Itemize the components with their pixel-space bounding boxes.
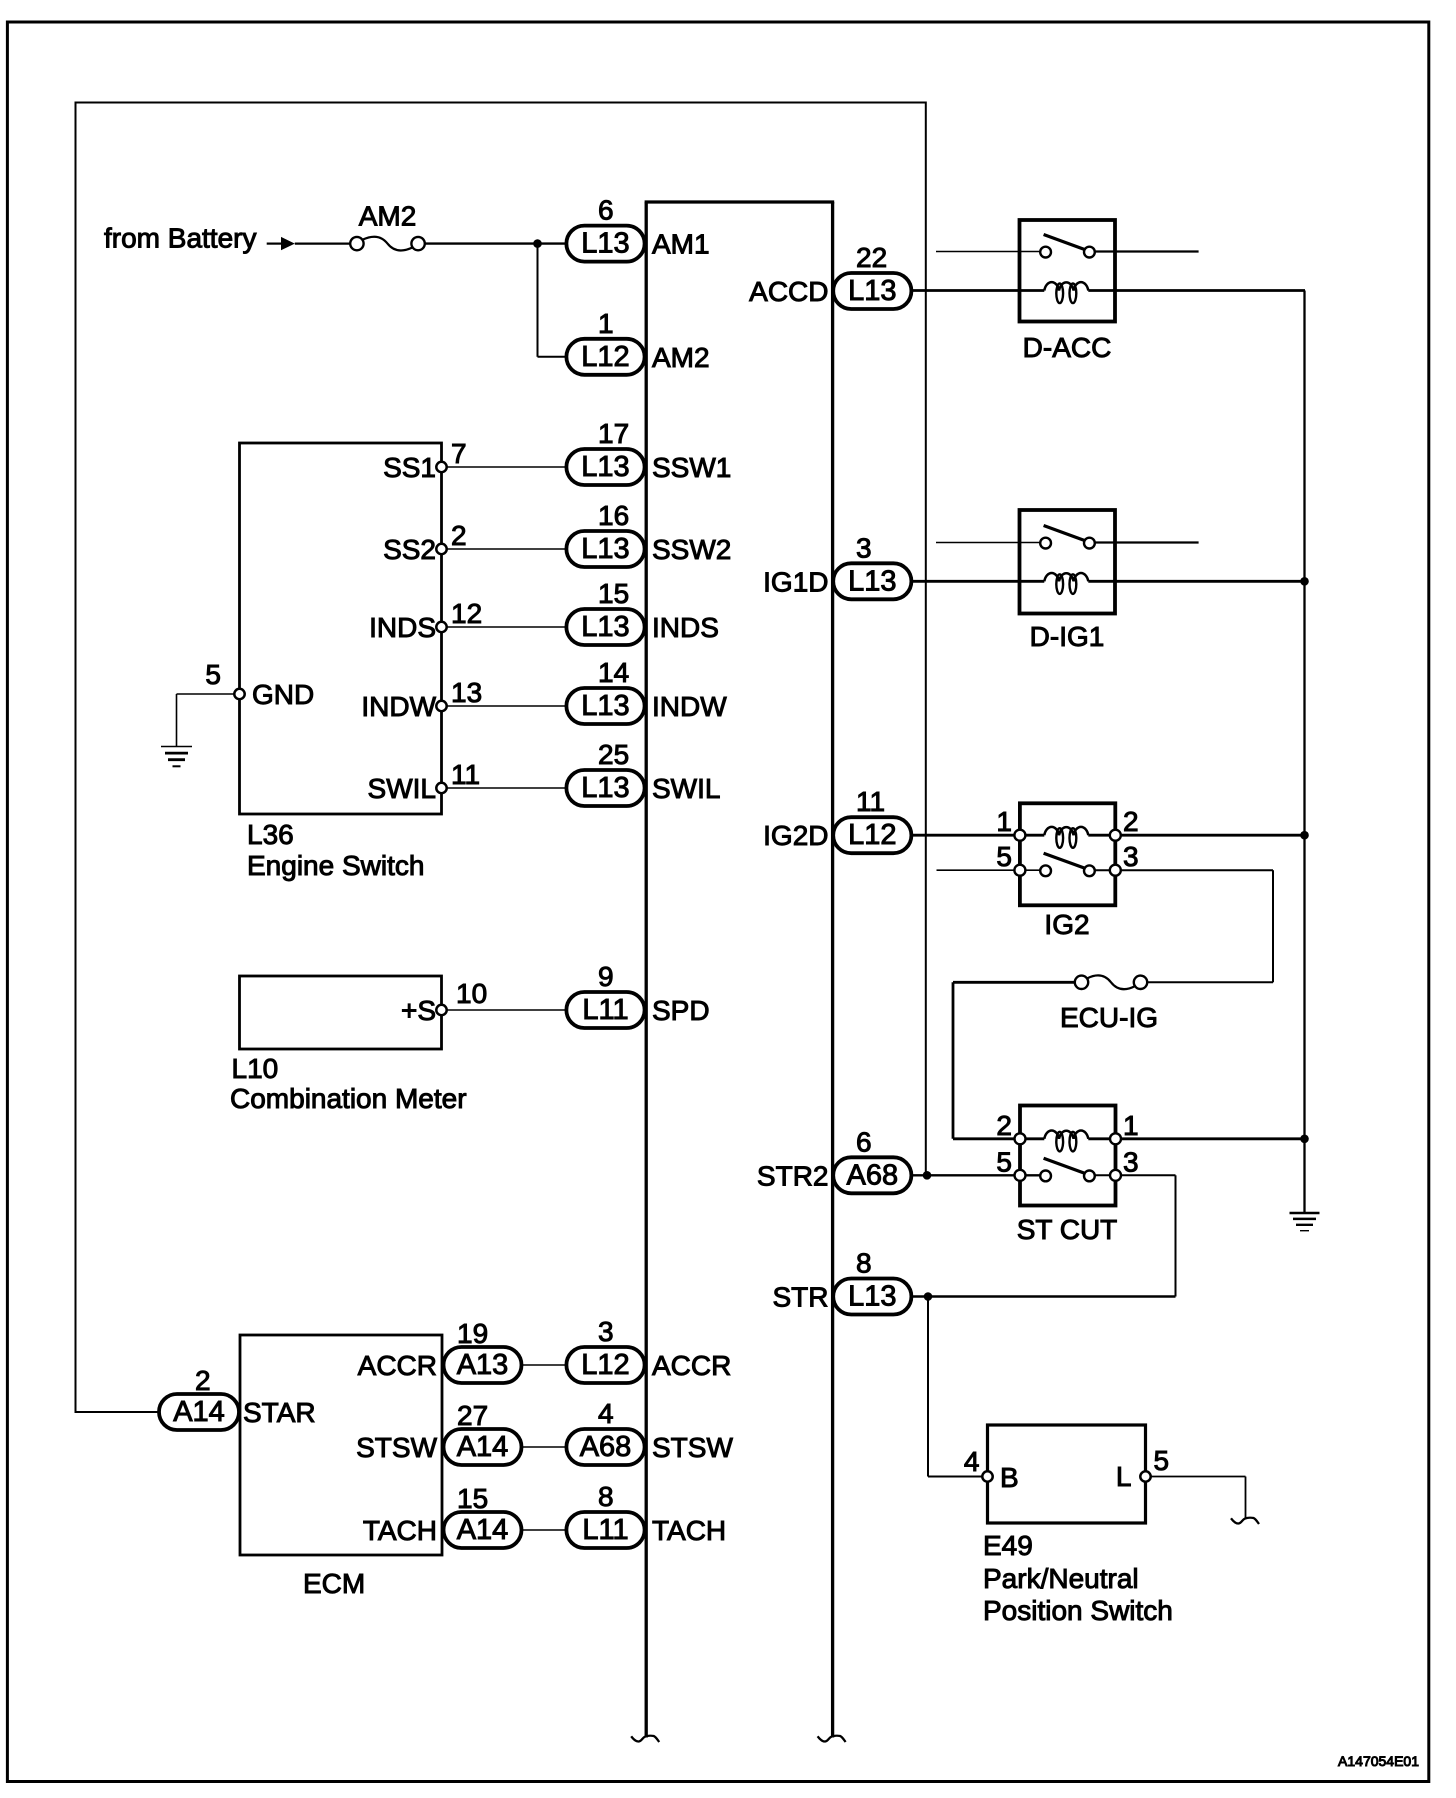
- connector L13 pin 15 (INDS): [566, 578, 719, 645]
- svg-text:13: 13: [451, 677, 482, 708]
- relay IG2 coil: [1044, 827, 1088, 848]
- connector L12 pin 11 (IG2D): [763, 786, 911, 853]
- svg-text:5: 5: [1154, 1445, 1170, 1476]
- connector L11 pin 9 (SPD): [566, 961, 709, 1028]
- wire battery feed with arrow: [267, 237, 351, 250]
- svg-text:14: 14: [598, 657, 629, 688]
- relay ST CUT pin 5: [996, 1146, 1025, 1181]
- svg-text:L13: L13: [581, 772, 629, 804]
- svg-text:STSW: STSW: [652, 1432, 733, 1463]
- relay ST CUT switch: [1040, 1158, 1095, 1181]
- svg-text:INDS: INDS: [369, 612, 436, 643]
- svg-text:11: 11: [856, 786, 885, 817]
- svg-text:9: 9: [598, 961, 614, 992]
- svg-text:INDW: INDW: [652, 691, 727, 722]
- svg-text:1: 1: [598, 308, 614, 339]
- svg-text:Position Switch: Position Switch: [983, 1595, 1173, 1626]
- connector L13 pin 3 (IG1D): [763, 532, 911, 599]
- svg-text:L13: L13: [581, 451, 629, 483]
- wire IG2 pin 3 down to fuse ECU-IG: [1147, 870, 1273, 982]
- wire E49 pin L away: [1146, 1477, 1246, 1520]
- node junction STR branch down: [924, 1292, 933, 1301]
- ground symbol at L36 GND: [161, 747, 192, 767]
- svg-text:from Battery: from Battery: [104, 223, 256, 254]
- svg-text:L13: L13: [581, 533, 629, 565]
- relay ST CUT pin 2: [996, 1110, 1025, 1145]
- junction bus block rails: [645, 202, 835, 1738]
- connector L12 pin 1 (AM2): [566, 308, 709, 375]
- svg-text:1: 1: [996, 806, 1012, 837]
- svg-text:5: 5: [996, 841, 1012, 872]
- svg-text:+S: +S: [401, 995, 436, 1026]
- svg-text:ECM: ECM: [303, 1568, 365, 1599]
- block L36 Engine Switch: [240, 443, 442, 881]
- svg-text:22: 22: [856, 242, 887, 273]
- svg-text:L13: L13: [848, 565, 896, 597]
- relay IG2 pin 5: [996, 841, 1025, 876]
- svg-text:6: 6: [856, 1126, 872, 1157]
- wire SS1 to bus connector: [442, 466, 567, 468]
- pin 5 GND of L36: [205, 659, 314, 710]
- wire relay IG2 switch row: [937, 869, 1274, 871]
- svg-text:ACCD: ACCD: [749, 276, 828, 307]
- pin 2 SS2 of L36: [383, 520, 467, 565]
- svg-text:IG2: IG2: [1044, 909, 1089, 940]
- wire ST CUT pin 3 down to STR row: [1095, 1175, 1176, 1296]
- svg-text:5: 5: [996, 1146, 1012, 1177]
- wire break squiggle below E49 pin L wire: [1231, 1518, 1259, 1524]
- wire STSW link to bus connector: [522, 1446, 567, 1448]
- svg-text:Engine Switch: Engine Switch: [247, 850, 424, 881]
- pin 5 L of E49: [1116, 1445, 1169, 1492]
- svg-text:8: 8: [598, 1481, 614, 1512]
- svg-text:AM1: AM1: [652, 229, 710, 260]
- wire STR down to E49 pin B: [928, 1297, 988, 1477]
- svg-text:3: 3: [1123, 1146, 1139, 1177]
- block E49 Park/Neutral Position Switch: [983, 1425, 1173, 1626]
- net label from Battery: [104, 223, 256, 254]
- wire ACCR link to bus connector: [522, 1364, 567, 1366]
- node junction IG2D coil to right rail: [1300, 831, 1309, 840]
- svg-text:L12: L12: [581, 341, 629, 373]
- svg-text:ECU-IG: ECU-IG: [1060, 1002, 1158, 1033]
- relay IG2 box: [1020, 803, 1115, 940]
- svg-text:19: 19: [457, 1318, 488, 1349]
- svg-text:2: 2: [996, 1110, 1012, 1141]
- connector A14 pin 2 (STAR): [159, 1365, 239, 1430]
- svg-text:B: B: [1000, 1462, 1019, 1493]
- svg-text:A147054E01: A147054E01: [1338, 1753, 1419, 1769]
- svg-text:A13: A13: [457, 1349, 509, 1381]
- relay IG2 pin 1: [996, 806, 1025, 841]
- wire relay D-IG1 switch stubs: [936, 542, 1199, 544]
- svg-text:IG1D: IG1D: [763, 566, 828, 597]
- relay ST CUT pin 1: [1110, 1110, 1139, 1145]
- svg-text:1: 1: [1123, 1110, 1139, 1141]
- svg-text:INDS: INDS: [652, 612, 719, 643]
- wire SS2 to bus connector: [442, 548, 567, 550]
- svg-text:Park/Neutral: Park/Neutral: [983, 1563, 1139, 1594]
- relay IG2 switch: [1040, 853, 1095, 876]
- wire IG1D to relay D-IG1 coil and right rail: [911, 580, 1304, 583]
- svg-text:A14: A14: [173, 1396, 225, 1428]
- relay D-IG1 box: [1020, 510, 1116, 652]
- pin 10 +S of L10: [401, 978, 487, 1026]
- relay IG2 pin 3: [1110, 841, 1139, 876]
- relay ST CUT box: [1017, 1106, 1118, 1246]
- svg-text:L13: L13: [581, 690, 629, 722]
- node junction STR2 with STAR loop: [923, 1171, 932, 1180]
- svg-text:4: 4: [598, 1398, 614, 1429]
- wire fuse AM2 to connector AM1: [425, 242, 567, 244]
- svg-text:D-IG1: D-IG1: [1030, 621, 1105, 652]
- wire INDW to bus connector: [442, 705, 567, 707]
- svg-text:IG2D: IG2D: [763, 820, 828, 851]
- svg-text:A68: A68: [846, 1159, 898, 1191]
- connector A13 pin 19 (ACCR out of ECM): [444, 1318, 522, 1383]
- connector A68 pin 6 (STR2): [757, 1126, 911, 1193]
- svg-text:ST CUT: ST CUT: [1017, 1214, 1118, 1245]
- wire STR row: [911, 1295, 1175, 1297]
- svg-text:3: 3: [856, 532, 872, 563]
- svg-text:L12: L12: [581, 1349, 629, 1381]
- connector A14 pin 27 (STSW out of ECM): [444, 1400, 522, 1465]
- relay D-IG1 switch: [1040, 526, 1095, 549]
- connector L13 pin 16 (SSW2): [566, 500, 731, 567]
- svg-text:L12: L12: [848, 819, 896, 851]
- wire INDS to bus connector: [442, 626, 567, 628]
- svg-text:STR2: STR2: [757, 1160, 829, 1191]
- relay D-IG1 coil: [1044, 573, 1088, 594]
- svg-text:E49: E49: [983, 1530, 1033, 1561]
- relay D-ACC switch: [1040, 235, 1095, 258]
- pin labels ACCR STSW TACH of ECM: [356, 1350, 437, 1546]
- block L10 Combination Meter: [230, 976, 467, 1114]
- svg-text:15: 15: [457, 1483, 488, 1514]
- svg-text:L10: L10: [232, 1053, 279, 1084]
- wire IG2D to relay IG2 coil and right rail: [911, 834, 1304, 837]
- svg-text:A14: A14: [457, 1514, 509, 1546]
- svg-text:3: 3: [598, 1316, 614, 1347]
- svg-text:15: 15: [598, 578, 629, 609]
- wire relay D-ACC switch stubs: [936, 251, 1199, 253]
- svg-text:SWIL: SWIL: [368, 773, 436, 804]
- svg-text:L13: L13: [848, 1281, 896, 1313]
- svg-text:L: L: [1116, 1461, 1132, 1492]
- svg-text:STR: STR: [773, 1282, 829, 1313]
- svg-text:L11: L11: [582, 994, 628, 1026]
- svg-text:L13: L13: [581, 611, 629, 643]
- svg-text:SS1: SS1: [383, 452, 436, 483]
- connector A14 pin 15 (TACH out of ECM): [444, 1483, 522, 1548]
- connector L13 pin 22 (ACCD): [749, 242, 911, 309]
- svg-text:16: 16: [598, 500, 629, 531]
- svg-text:27: 27: [457, 1400, 488, 1431]
- pin 12 INDS of L36: [369, 598, 482, 643]
- pin STAR label of ECM: [243, 1397, 316, 1428]
- wire TACH link to bus connector: [522, 1529, 567, 1531]
- wire STAR loop from ECM STAR around page top to STR2 junction: [76, 103, 926, 1413]
- svg-text:11: 11: [451, 759, 480, 790]
- svg-text:ACCR: ACCR: [358, 1350, 437, 1381]
- svg-text:6: 6: [598, 195, 614, 226]
- svg-text:AM2: AM2: [359, 201, 417, 232]
- relay IG2 pin 2: [1110, 806, 1139, 841]
- svg-text:L36: L36: [247, 819, 294, 850]
- connector L12 pin 3 (ACCR): [566, 1316, 731, 1383]
- node AM2 branch junction: [533, 239, 542, 248]
- ground symbol at right rail: [1290, 1213, 1320, 1231]
- wire break squiggle at right bus bottom: [818, 1736, 846, 1742]
- svg-text:2: 2: [1123, 806, 1139, 837]
- svg-text:STAR: STAR: [243, 1397, 316, 1428]
- svg-text:SPD: SPD: [652, 995, 710, 1026]
- node junction IG1D coil to right rail: [1300, 577, 1309, 586]
- svg-text:5: 5: [205, 659, 221, 690]
- svg-text:7: 7: [451, 438, 467, 469]
- wire STR2 to ST CUT pin 5: [911, 1174, 1040, 1176]
- svg-text:Combination Meter: Combination Meter: [230, 1083, 467, 1114]
- connector L13 pin 17 (SSW1): [566, 418, 731, 485]
- pin 7 SS1 of L36: [383, 438, 467, 483]
- svg-text:AM2: AM2: [652, 342, 710, 373]
- connector A68 pin 4 (STSW): [566, 1398, 733, 1465]
- svg-text:ACCR: ACCR: [652, 1350, 731, 1381]
- fuse AM2: [350, 201, 425, 251]
- connector L13 pin 6 (AM1): [566, 195, 709, 262]
- svg-text:INDW: INDW: [361, 691, 436, 722]
- connector L11 pin 8 (TACH): [566, 1481, 726, 1548]
- svg-text:SS2: SS2: [383, 534, 436, 565]
- node junction ST CUT pin1 to right rail: [1300, 1135, 1309, 1144]
- svg-text:4: 4: [964, 1446, 980, 1477]
- wire right rail from D-ACC coil down to ground: [1303, 291, 1305, 1213]
- block ECM: [240, 1335, 442, 1599]
- pin 11 SWIL of L36: [368, 759, 481, 804]
- svg-text:SSW2: SSW2: [652, 534, 731, 565]
- svg-text:25: 25: [598, 739, 629, 770]
- svg-text:A14: A14: [457, 1431, 509, 1463]
- svg-text:TACH: TACH: [363, 1515, 437, 1546]
- relay D-ACC coil: [1044, 282, 1088, 303]
- svg-text:8: 8: [856, 1248, 872, 1279]
- svg-text:2: 2: [195, 1365, 211, 1396]
- svg-text:L11: L11: [582, 1514, 628, 1546]
- relay D-ACC box: [1020, 220, 1116, 363]
- wire fuse ECU-IG to ST CUT pin 2: [953, 982, 1075, 1139]
- svg-text:SSW1: SSW1: [652, 452, 731, 483]
- svg-text:10: 10: [456, 978, 487, 1009]
- svg-text:2: 2: [451, 520, 467, 551]
- svg-text:GND: GND: [252, 679, 314, 710]
- wire GND to ground: [177, 694, 240, 747]
- wire branch down to connector AM2: [538, 244, 567, 357]
- svg-text:17: 17: [598, 418, 629, 449]
- drawing number A147054E01: [1338, 1753, 1419, 1769]
- connector L13 pin 8 (STR): [773, 1248, 912, 1315]
- svg-text:STSW: STSW: [356, 1432, 437, 1463]
- wire SWIL to bus connector: [442, 787, 567, 789]
- wire +S to bus connector SPD: [442, 1009, 567, 1011]
- connector L13 pin 14 (INDW): [566, 657, 727, 724]
- svg-text:SWIL: SWIL: [652, 773, 720, 804]
- connector L13 pin 25 (SWIL): [566, 739, 720, 806]
- wire ACCD to relay D-ACC coil and right rail: [911, 289, 1305, 292]
- wire ST CUT coil pin 1 to right rail: [1088, 1137, 1304, 1140]
- svg-text:L13: L13: [581, 228, 629, 260]
- pin 4 B of E49: [964, 1446, 1019, 1493]
- relay ST CUT coil: [1044, 1130, 1088, 1151]
- pin 13 INDW of L36: [361, 677, 482, 722]
- svg-text:L13: L13: [848, 275, 896, 307]
- wire break squiggle at left bus bottom: [631, 1736, 659, 1742]
- fuse ECU-IG: [1060, 975, 1158, 1033]
- relay ST CUT pin 3: [1110, 1146, 1139, 1181]
- svg-text:3: 3: [1123, 841, 1139, 872]
- svg-text:A68: A68: [580, 1431, 632, 1463]
- svg-text:TACH: TACH: [652, 1515, 726, 1546]
- svg-text:D-ACC: D-ACC: [1023, 332, 1112, 363]
- svg-text:12: 12: [451, 598, 482, 629]
